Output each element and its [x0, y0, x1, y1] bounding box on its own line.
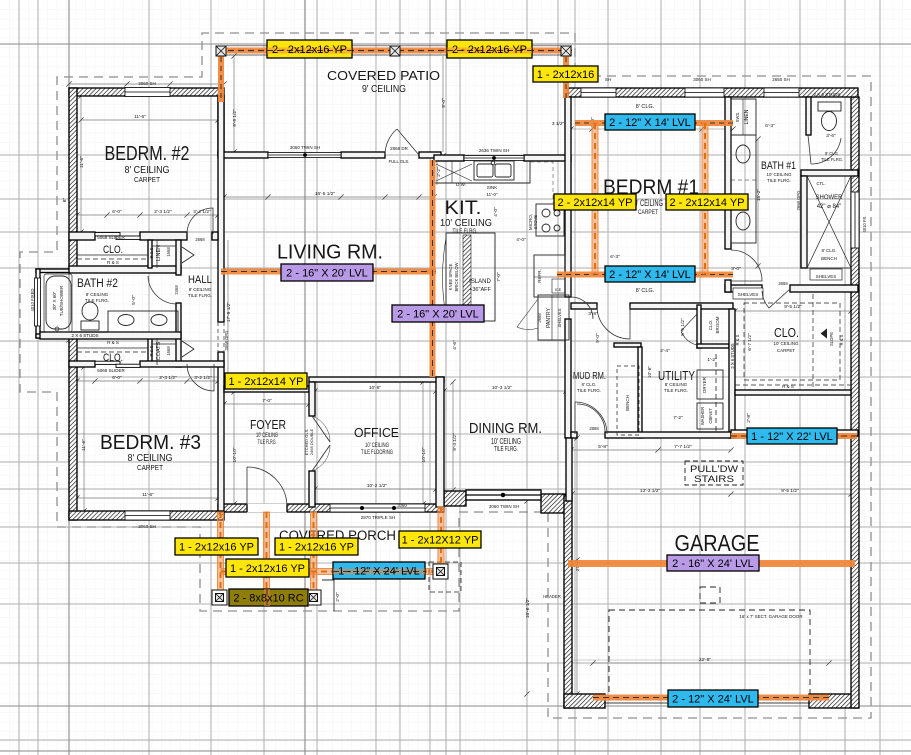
label 2-2x12x14 YP left box	[554, 194, 636, 210]
shelves label box bedrm1 clo	[733, 288, 763, 299]
svg-text:TILE FLRG.: TILE FLRG.	[258, 440, 277, 446]
svg-text:3060 TWIN SH: 3060 TWIN SH	[489, 504, 519, 509]
door bedrm3	[187, 364, 214, 391]
dimension lines	[69, 0, 851, 694]
vanity bath1	[731, 135, 756, 243]
svg-text:COVERED PATIO: COVERED PATIO	[327, 69, 440, 83]
label 2-16x24 LVL garage box	[667, 555, 759, 571]
beam bedrm1 east dashed 2x12x14	[702, 123, 708, 274]
svg-text:TUB/SHOWER: TUB/SHOWER	[59, 285, 64, 316]
svg-text:SWS.: SWS.	[735, 112, 740, 123]
door patio 2868	[385, 129, 419, 155]
svg-text:5'-6 1/2": 5'-6 1/2"	[680, 318, 686, 336]
door bath1	[731, 250, 762, 281]
toilet bath1	[818, 102, 841, 111]
svg-text:30" X 60": 30" X 60"	[52, 291, 57, 310]
fixtures	[44, 99, 851, 700]
svg-text:2 X 6 STUDS: 2 X 6 STUDS	[730, 343, 735, 368]
opening 3068 OPG dashes	[218, 322, 224, 352]
svg-text:5'-8": 5'-8"	[598, 444, 608, 450]
svg-text:WASHER: WASHER	[700, 407, 705, 425]
svg-text:5'-0": 5'-0"	[131, 295, 137, 305]
window 3060 SH top-left	[125, 88, 170, 97]
svg-text:42" ⌀ 84": 42" ⌀ 84"	[817, 204, 842, 210]
svg-text:1'-2": 1'-2"	[707, 357, 717, 363]
svg-text:1 - 12" X 22' LVL: 1 - 12" X 22' LVL	[751, 431, 833, 443]
svg-text:SH: SH	[605, 77, 611, 82]
beam bedrm1 top 2-12x14 LVL	[575, 120, 733, 126]
wall: utility east	[729, 309, 735, 438]
svg-text:2 - 12" X 14' LVL: 2 - 12" X 14' LVL	[609, 269, 691, 281]
svg-text:1 - 2x12x16 YP: 1 - 2x12x16 YP	[179, 542, 254, 554]
beam living rm horiz 2-16x20 LVL	[221, 269, 436, 275]
label 1-2x12x16 YP porch left box	[175, 538, 258, 555]
svg-text:REFR.: REFR.	[537, 269, 542, 283]
wall: bedrm3 top	[69, 361, 95, 367]
svg-text:PANTRY: PANTRY	[546, 307, 552, 327]
svg-text:TILE FLRG.: TILE FLRG.	[577, 388, 601, 393]
svg-text:2 X 6 STUDS: 2 X 6 STUDS	[71, 333, 98, 338]
window SH bedrm1	[581, 88, 616, 97]
door kitchen to mud hall	[571, 297, 593, 319]
door clo big	[762, 289, 790, 308]
door bath2	[148, 276, 176, 304]
svg-text:2668: 2668	[537, 313, 542, 323]
svg-text:BEDRM. #3: BEDRM. #3	[100, 431, 201, 454]
svg-text:STOVE: STOVE	[533, 215, 538, 229]
window 2636 TWIN SH kitchen	[464, 156, 524, 161]
wall: clo/linen bottom	[69, 266, 181, 273]
label 1-12x22 LVL garage box	[747, 428, 837, 444]
door arcs	[148, 129, 841, 505]
wall: patio west	[218, 96, 224, 156]
svg-text:R & S: R & S	[782, 384, 794, 389]
beam porch horiz 1-12x24 LVL	[221, 569, 438, 575]
svg-text:2'-3 1/2": 2'-3 1/2"	[159, 375, 177, 381]
wall: bedrm2 bottom	[69, 232, 95, 240]
svg-text:CBINET: CBINET	[708, 408, 713, 424]
svg-text:3'-2 1/2": 3'-2 1/2"	[193, 209, 211, 215]
svg-text:LINEN: LINEN	[156, 245, 162, 261]
svg-text:11'-0": 11'-0"	[486, 192, 498, 197]
wall: toilet alcove	[806, 97, 811, 135]
opening: front door foyer	[247, 504, 287, 513]
svg-text:1 - 2x12x16 YP: 1 - 2x12x16 YP	[230, 563, 305, 575]
svg-text:8' CLG.: 8' CLG.	[821, 248, 836, 253]
label 2-2x12x16 YP patio right box	[447, 40, 532, 58]
svg-text:R & S: R & S	[149, 345, 154, 356]
wall: shower west	[801, 176, 807, 268]
svg-text:3060 SH: 3060 SH	[693, 77, 711, 82]
svg-text:2'-0": 2'-0"	[335, 592, 341, 602]
dashed pier box porch right	[429, 562, 461, 592]
svg-text:2650 SH: 2650 SH	[772, 77, 790, 82]
svg-text:HALL: HALL	[188, 274, 212, 286]
svg-text:2668: 2668	[778, 281, 788, 286]
beam porch east 1-2x12x16	[311, 512, 317, 592]
svg-text:10'-10": 10'-10"	[232, 447, 238, 462]
svg-text:ICE: ICE	[555, 287, 562, 292]
svg-text:3'-6": 3'-6"	[826, 133, 836, 139]
svg-text:FOYER: FOYER	[250, 418, 286, 432]
label 2-16x20 LVL living box	[281, 264, 373, 281]
svg-text:2 - 16" X 24' LVL: 2 - 16" X 24' LVL	[672, 558, 754, 570]
wall: coats west	[148, 338, 152, 365]
wall: patio south / kitchen north	[218, 152, 268, 158]
svg-text:+36"AFF: +36"AFF	[469, 287, 491, 293]
svg-text:4010 FIXED: 4010 FIXED	[30, 289, 35, 312]
svg-text:6'-3": 6'-3"	[610, 254, 620, 260]
wall: dining bottom exterior	[444, 491, 466, 506]
svg-text:8' CLG.: 8' CLG.	[636, 104, 655, 110]
svg-text:BEDRM. #2: BEDRM. #2	[105, 142, 190, 165]
label texts	[179, 44, 833, 706]
svg-text:R & S: R & S	[149, 247, 154, 258]
wall: linen west	[148, 240, 152, 268]
svg-text:8' CEILING: 8' CEILING	[665, 382, 688, 387]
svg-text:HEADER: HEADER	[543, 594, 560, 599]
svg-text:2'-8": 2'-8"	[746, 413, 752, 423]
wall: garage west exterior	[564, 495, 572, 708]
svg-text:3060 SH: 3060 SH	[138, 524, 156, 529]
svg-text:CTL.: CTL.	[816, 181, 825, 186]
svg-text:TILE FLRG.: TILE FLRG.	[664, 388, 688, 393]
wall: exterior left upper	[69, 88, 77, 269]
window 4010 FX right	[851, 192, 859, 248]
shower	[807, 176, 851, 268]
svg-text:CLO.: CLO.	[708, 320, 713, 331]
svg-text:6'-0": 6'-0"	[112, 375, 122, 381]
svg-text:13'-3 1/2": 13'-3 1/2"	[640, 488, 661, 494]
svg-text:9'-5 1/2": 9'-5 1/2"	[781, 488, 799, 494]
svg-text:2 - 2x12x16 YP: 2 - 2x12x16 YP	[452, 44, 527, 56]
dimension texts	[112, 114, 836, 663]
door mud rm from dining	[575, 402, 607, 434]
door bedrm2	[187, 208, 213, 234]
svg-text:2 - 12" X 14' LVL: 2 - 12" X 14' LVL	[609, 117, 691, 129]
window 4010 FIXED	[35, 278, 41, 326]
slider 5068	[95, 361, 120, 364]
vanity bath2	[108, 311, 178, 332]
svg-text:8' CEILING: 8' CEILING	[86, 292, 109, 297]
window 3060 SH bath1	[685, 88, 724, 97]
svg-text:2 - 16" X 20' LVL: 2 - 16" X 20' LVL	[286, 268, 368, 280]
svg-text:10' CEILING: 10' CEILING	[766, 172, 792, 177]
window 2870 TRIPLE SH office	[330, 504, 425, 512]
svg-text:SINK: SINK	[487, 185, 498, 190]
garage door dashed	[609, 587, 810, 700]
svg-text:8' CEILING: 8' CEILING	[189, 287, 212, 292]
svg-text:22'-9": 22'-9"	[699, 657, 712, 663]
svg-text:11'-6": 11'-6"	[134, 114, 146, 120]
door broom closet	[681, 314, 697, 345]
svg-text:ISLAND: ISLAND	[469, 279, 491, 285]
svg-text:BRICK BELOW: BRICK BELOW	[454, 262, 459, 291]
wall: exterior top-right	[568, 88, 858, 97]
dimension tick marks	[66, 48, 853, 696]
beam living rm vert 2-16x20 LVL	[430, 160, 436, 377]
svg-text:17'-9 1/2": 17'-9 1/2"	[226, 302, 232, 323]
svg-text:3'-0": 3'-0"	[731, 266, 741, 272]
kitchen sink	[474, 161, 514, 180]
wall: office east / dining west	[436, 377, 444, 507]
label 2-2x12x14 YP right box	[666, 194, 748, 210]
svg-text:TILE FLRG.: TILE FLRG.	[494, 446, 518, 453]
pulldown stairs	[685, 461, 743, 485]
svg-text:4010 FX.: 4010 FX.	[862, 216, 867, 233]
svg-text:2870 TRIPLE SH: 2870 TRIPLE SH	[361, 515, 395, 520]
svg-text:9' CEILING: 9' CEILING	[362, 84, 406, 95]
label 1-2x12x16 box	[533, 66, 598, 82]
svg-text:GARAGE: GARAGE	[675, 530, 760, 556]
kitchen upper cab dashes	[530, 162, 553, 203]
svg-text:R & S: R & S	[839, 334, 844, 345]
label 2-8x8x10 RC porch box	[229, 589, 308, 606]
svg-text:BENCH: BENCH	[625, 395, 630, 411]
svg-text:CLO.: CLO.	[774, 326, 799, 340]
beam porch right 1-2x12x12	[438, 507, 444, 567]
coats	[152, 343, 176, 345]
svg-text:KIT.: KIT.	[445, 198, 482, 219]
svg-text:DRYER: DRYER	[702, 376, 707, 392]
rotated dims	[62, 98, 762, 618]
svg-text:BENCH: BENCH	[821, 256, 837, 261]
svg-text:3068 OPG.: 3068 OPG.	[224, 330, 229, 351]
svg-text:9'-5 1/2": 9'-5 1/2"	[784, 304, 802, 310]
svg-text:11'-6": 11'-6"	[81, 439, 87, 451]
label boxes over beams	[175, 40, 837, 707]
svg-text:2 - 8x8x10 RC: 2 - 8x8x10 RC	[233, 593, 303, 605]
wall: spine x218	[218, 96, 224, 322]
label 1-2x12x16 YP porch mid box	[275, 538, 358, 555]
svg-text:2'-3 1/2": 2'-3 1/2"	[154, 209, 172, 215]
wall: mud/utility divider	[614, 343, 641, 347]
svg-text:6'-3": 6'-3"	[765, 123, 775, 129]
svg-text:1 - 12" X 24' LVL: 1 - 12" X 24' LVL	[338, 566, 420, 578]
svg-text:TILE FLRG.: TILE FLRG.	[188, 293, 212, 298]
stove/micro	[536, 204, 564, 236]
svg-text:16'-5 1/2": 16'-5 1/2"	[315, 191, 336, 197]
svg-text:3'-2 1/2": 3'-2 1/2"	[194, 375, 212, 381]
svg-text:2'-4": 2'-4"	[660, 348, 670, 354]
utility appliances	[697, 370, 723, 399]
svg-text:TILE FLOORING: TILE FLOORING	[361, 449, 393, 456]
svg-text:CARPET: CARPET	[638, 209, 658, 216]
svg-text:CLO.: CLO.	[103, 244, 123, 256]
walls	[35, 88, 860, 709]
beam patio west post drop	[218, 48, 224, 102]
svg-text:2468: 2468	[174, 285, 179, 295]
bedrm1 closet dashes	[735, 294, 851, 390]
wall: kitchen east / bedrm1-mud west	[565, 97, 571, 297]
svg-text:DINING RM.: DINING RM.	[469, 420, 542, 437]
svg-text:1668: 1668	[166, 247, 171, 257]
pantry	[538, 295, 569, 340]
wall: exterior right	[851, 97, 859, 708]
svg-text:1668: 1668	[166, 346, 171, 356]
wall: BEDRM3 bottom exterior	[69, 511, 224, 520]
wall: bath1 south / clo north	[725, 285, 762, 292]
garage interior line	[572, 659, 851, 661]
mudroom bench	[617, 366, 639, 435]
svg-text:2868 DR: 2868 DR	[390, 146, 409, 151]
refrigerator	[534, 255, 565, 297]
post patio mid	[390, 46, 400, 56]
svg-text:1 - 2x12x16: 1 - 2x12x16	[537, 69, 594, 81]
wall: office west	[309, 382, 315, 416]
wall: bath2 bottom	[40, 332, 181, 339]
svg-text:2668 OPG.: 2668 OPG.	[796, 190, 801, 211]
svg-text:7'-0": 7'-0"	[262, 398, 272, 404]
label 1-2x12X12 YP porch right box	[399, 531, 481, 548]
wall: exterior left lower	[69, 338, 77, 520]
svg-text:7'-2": 7'-2"	[673, 415, 683, 421]
svg-text:8' CLG.: 8' CLG.	[636, 288, 655, 294]
toilet bath2	[82, 302, 98, 320]
svg-text:4'-6": 4'-6"	[452, 340, 458, 350]
window 2650 SH	[764, 88, 799, 97]
svg-text:2 - 2x12x14 YP: 2 - 2x12x14 YP	[557, 197, 632, 209]
svg-text:TILE FLRG.: TILE FLRG.	[767, 178, 791, 183]
wall: clo south	[735, 390, 851, 395]
svg-text:10'-2 1/2": 10'-2 1/2"	[367, 483, 388, 489]
tub bath2	[46, 276, 71, 329]
beam bedrm1 west dashed 2x12x14	[592, 123, 598, 274]
beam garage mid 2-16x24 LVL	[568, 560, 855, 567]
svg-text:6'-0": 6'-0"	[112, 209, 122, 215]
svg-text:3'-8": 3'-8"	[588, 311, 598, 317]
wall: bedrm1 east / vanity	[725, 97, 731, 249]
svg-text:9'-0": 9'-0"	[441, 98, 447, 108]
wall: garage bottom exterior	[564, 694, 605, 708]
svg-text:2 - 12" X 24' LVL: 2 - 12" X 24' LVL	[672, 694, 754, 706]
svg-text:1 - 2x12x14 YP: 1 - 2x12x14 YP	[228, 376, 303, 388]
window 3060 TWIN SH patio	[268, 153, 341, 158]
svg-text:9'-0": 9'-0"	[595, 333, 601, 343]
svg-text:7'-7 1/2": 7'-7 1/2"	[674, 444, 692, 450]
svg-text:CARPET: CARPET	[777, 348, 796, 353]
svg-text:9'-4 1/2": 9'-4 1/2"	[452, 433, 458, 451]
svg-text:CARPET: CARPET	[134, 177, 161, 184]
doors office double	[312, 416, 330, 471]
svg-text:MUD RM.: MUD RM.	[573, 371, 606, 382]
svg-text:STAIRS: STAIRS	[694, 474, 734, 485]
svg-text:COATS: COATS	[156, 341, 162, 360]
post patio left	[216, 46, 226, 56]
svg-text:4'-0": 4'-0"	[493, 207, 499, 217]
room texts	[30, 69, 867, 663]
label 2-16x20 LVL vert box	[392, 305, 484, 322]
svg-text:6'-7 1/2": 6'-7 1/2"	[747, 333, 753, 351]
post porch left	[212, 590, 227, 605]
svg-text:2'-2": 2'-2"	[436, 167, 442, 177]
beam garage 1-12x22 LVL	[731, 433, 857, 439]
svg-text:3060 TWIN SH: 3060 TWIN SH	[290, 145, 320, 150]
svg-text:1 - 2x12X12 YP: 1 - 2x12X12 YP	[402, 535, 479, 547]
linen door wedge	[182, 247, 194, 263]
beam bedrm1 bottom 2-12x14 LVL	[557, 272, 733, 278]
linen shelves	[152, 245, 176, 247]
svg-text:8": 8"	[62, 198, 68, 203]
wall: foyer/office bottom exterior	[218, 504, 444, 512]
wall: shower north	[801, 170, 858, 176]
svg-text:3060: 3060	[397, 503, 407, 508]
svg-text:15'-2": 15'-2"	[756, 189, 762, 202]
svg-text:2668: 2668	[195, 237, 205, 242]
svg-text:2 - 2x12x16 YP: 2 - 2x12x16 YP	[272, 44, 347, 56]
svg-text:SHOWER: SHOWER	[816, 195, 844, 201]
svg-text:KNEE SPACE: KNEE SPACE	[448, 264, 453, 291]
svg-text:TILE FLRG.: TILE FLRG.	[453, 228, 478, 235]
door bedrm1	[597, 306, 630, 339]
svg-text:10' CEILING: 10' CEILING	[491, 436, 521, 446]
porch slab step	[322, 580, 334, 611]
svg-text:3060 SH: 3060 SH	[138, 81, 156, 86]
svg-text:11'-6": 11'-6"	[79, 156, 85, 168]
svg-text:10' CEILING: 10' CEILING	[256, 433, 278, 439]
door garage to mud	[577, 404, 605, 432]
svg-text:R & S: R & S	[107, 260, 119, 265]
svg-text:8' CEILING: 8' CEILING	[128, 453, 173, 464]
svg-text:10' CEILING: 10' CEILING	[365, 442, 389, 449]
svg-text:R & S: R & S	[107, 340, 119, 345]
label 1-2x12x14 YP foyer box	[225, 373, 307, 389]
wall: broom closet	[697, 305, 701, 348]
beams	[212, 46, 857, 701]
wall: garage north (mud/utility bottom)	[571, 432, 577, 438]
svg-text:2468 DOUBLE: 2468 DOUBLE	[309, 428, 314, 455]
svg-text:BROOM: BROOM	[715, 316, 720, 333]
beam porch mid 1-2x12x16	[264, 512, 270, 592]
svg-text:8' CLG.: 8' CLG.	[581, 382, 596, 387]
door toilet rm	[808, 135, 841, 164]
svg-text:2 - 2x12x14 YP: 2 - 2x12x14 YP	[669, 197, 744, 209]
post porch right	[433, 564, 448, 579]
svg-text:D.W.: D.W.	[456, 182, 466, 187]
wall: office north	[309, 377, 444, 382]
beam overlay stripes on labels	[264, 48, 532, 607]
svg-text:8' CLG.: 8' CLG.	[825, 151, 839, 156]
label 2-12x14 LVL bottom box	[605, 266, 695, 282]
svg-text:16'-8 1/2": 16'-8 1/2"	[525, 598, 531, 619]
svg-text:5068 SLIDER: 5068 SLIDER	[97, 235, 125, 240]
wall: foyer north	[224, 386, 309, 392]
svg-text:10'-3 1/2": 10'-3 1/2"	[492, 385, 513, 391]
svg-text:1 - 2x12x16 YP: 1 - 2x12x16 YP	[279, 542, 354, 554]
svg-text:R & S: R & S	[735, 334, 740, 345]
svg-text:SLOPE: SLOPE	[829, 332, 834, 346]
beam patio east post drop	[563, 48, 569, 98]
svg-text:9'-9 1/2": 9'-9 1/2"	[232, 109, 238, 127]
post porch mid	[306, 590, 321, 605]
label 2-12x14 LVL top box	[605, 114, 695, 130]
svg-text:10'-10": 10'-10"	[421, 447, 427, 462]
svg-text:2636 TWIN SH: 2636 TWIN SH	[479, 148, 509, 153]
sws/linen cab	[731, 99, 756, 135]
svg-text:10'-6": 10'-6"	[369, 385, 382, 391]
svg-text:4'-0": 4'-0"	[516, 237, 526, 243]
post patio right	[561, 46, 571, 56]
svg-text:LINEN: LINEN	[744, 109, 750, 124]
svg-text:11'-6": 11'-6"	[142, 492, 154, 498]
svg-text:TILE FLRG.: TILE FLRG.	[85, 298, 109, 303]
beam garage door 2-12x24 LVL	[593, 695, 829, 701]
svg-text:CARPET: CARPET	[137, 465, 164, 472]
door pantry	[517, 299, 538, 330]
rotated small texts	[30, 109, 867, 599]
svg-text:3 1/2": 3 1/2"	[552, 121, 565, 127]
svg-text:UTILITY: UTILITY	[658, 368, 695, 383]
